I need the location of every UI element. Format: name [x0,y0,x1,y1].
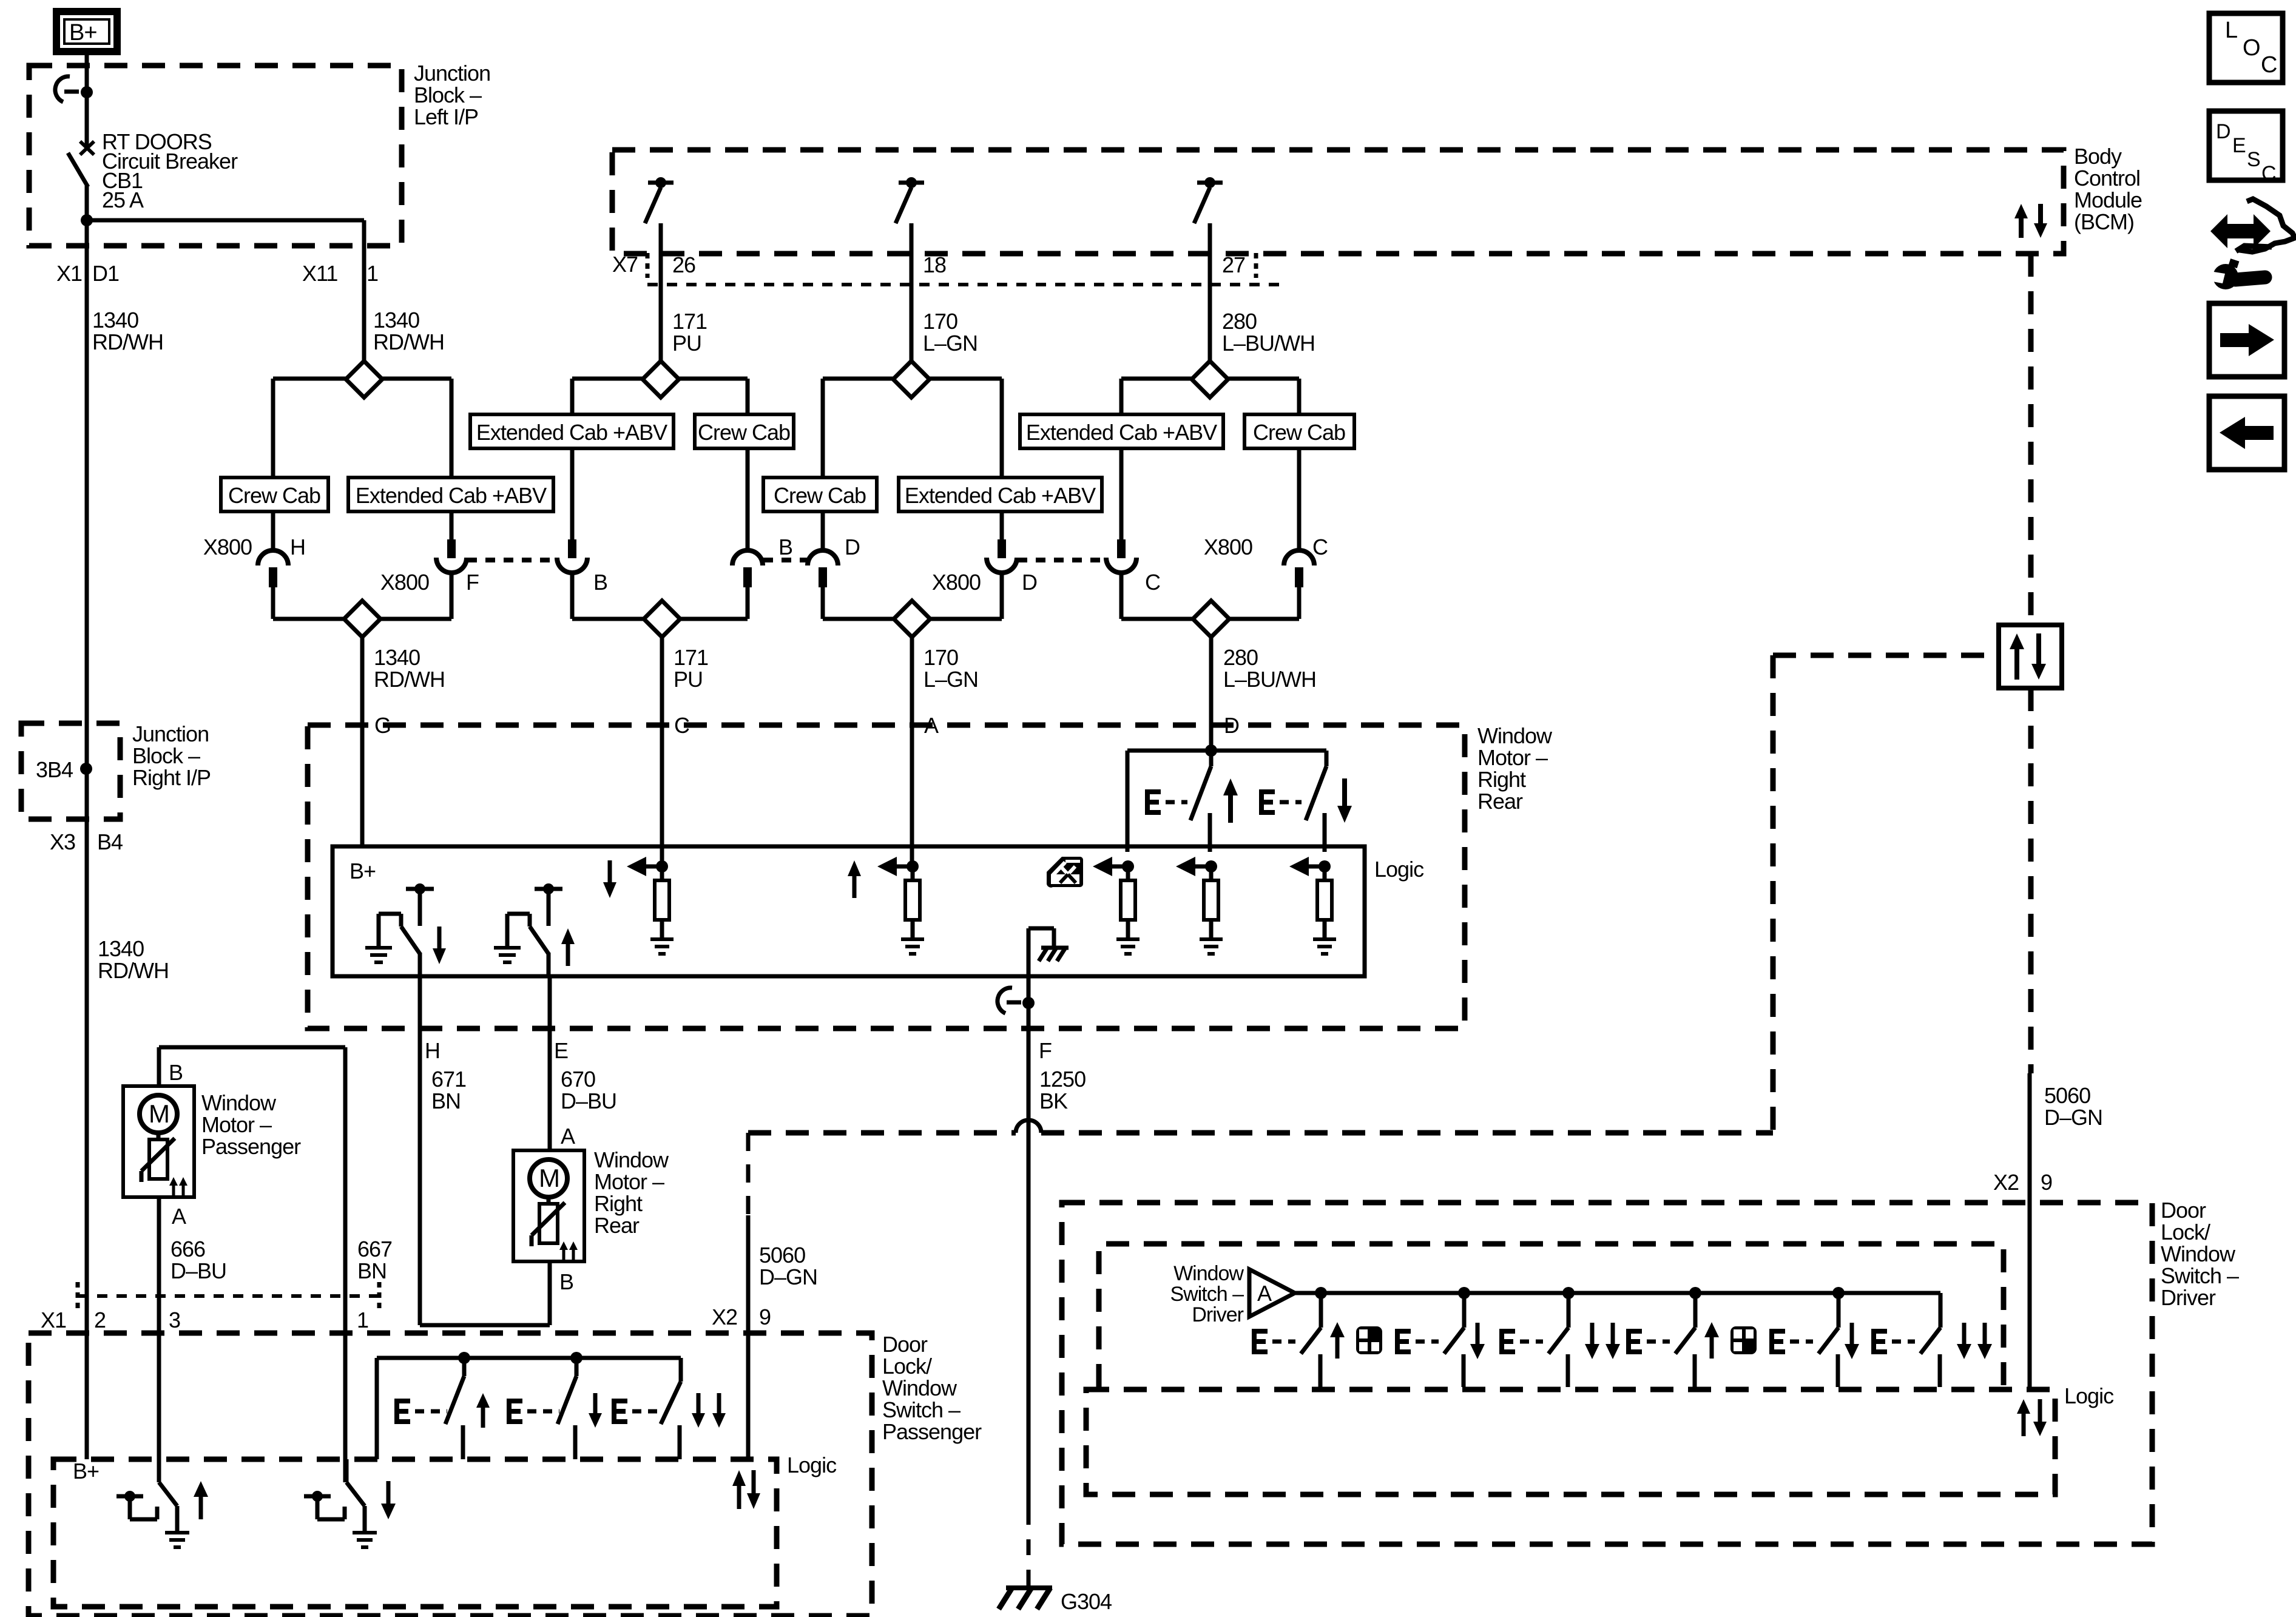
option box Crew Cab branch 3l [763,478,877,511]
right rear up switch [1190,751,1211,852]
icon box DESC [2209,111,2283,185]
svg-text:27: 27 [1222,252,1245,277]
branch 3 l wire connector to bottom [821,584,825,619]
splice S1 clip [55,76,93,102]
branch 2 l leg upper wire [570,379,575,414]
svg-text:C: C [1312,535,1328,559]
svg-text:B4: B4 [97,829,123,854]
connector label C lower [1145,570,1160,595]
svg-text:666: 666 [171,1237,205,1261]
pin 27 label [1222,252,1245,277]
option box Extended Cab +ABV branch 1r [348,478,553,511]
logic internal switch H (down) [365,883,446,976]
wire motor passenger B up [159,1047,345,1296]
svg-text:F: F [466,570,479,595]
branch 1 bottom splice horizontal [273,617,451,621]
svg-text:Left I/P: Left I/P [414,104,478,129]
svg-text:Window: Window [201,1090,277,1115]
svg-text:G304: G304 [1061,1589,1112,1614]
wire label 671 BN [431,1067,466,1113]
wire label 1340 RD/WH left [92,308,163,354]
svg-text:C: C [1145,570,1160,595]
branch 3 r wire box to connector [1000,511,1004,540]
connector X800 link dashes F-B [467,558,556,562]
passenger switch express unit [661,1358,681,1459]
branch 1 r wire connector to bottom [450,573,454,619]
svg-text:Rear: Rear [594,1213,640,1238]
driver inner dashed box [1099,1244,2004,1387]
svg-text:Crew Cab: Crew Cab [228,483,320,508]
wire label 5060 D-GN passenger [759,1243,817,1289]
wire label 170 L-GN upper [923,309,977,356]
connector X7 dotted separator [647,283,1285,286]
wire junction to X11 leg [87,220,364,246]
passenger B+ label [73,1459,99,1484]
svg-text:171: 171 [674,645,708,670]
terminal letter D [1224,713,1239,738]
svg-text:25 A: 25 A [102,187,144,212]
svg-text:Right I/P: Right I/P [132,765,211,790]
svg-text:667: 667 [357,1237,392,1261]
connector X800 half (cup) at 943 [557,539,587,573]
junction block right I/P label [132,721,211,790]
dashed link vertical [1771,655,1776,1133]
splice diamond bottom branch 3 [894,601,930,637]
ground G304 label [1061,1589,1112,1614]
svg-text:X800: X800 [380,570,429,595]
terminal letter H [425,1038,440,1063]
svg-text:9: 9 [759,1305,771,1329]
terminal letter A passenger [172,1204,186,1229]
connector X2 label passenger [712,1305,771,1329]
svg-text:1340: 1340 [92,308,138,333]
driver logic arrows icon [2017,1399,2047,1436]
option box Extended Cab +ABV branch 3r [899,478,1102,511]
passenger B+ dashed box [53,1459,777,1607]
driver logic label [2064,1383,2114,1408]
svg-text:Lock/: Lock/ [882,1354,932,1379]
wire label 280 L-BU/WH upper [1222,309,1315,356]
E label up switch [1145,789,1187,815]
E label down switch [1259,789,1302,815]
circuit breaker CB1 contact X [80,141,94,155]
svg-text:3: 3 [169,1308,180,1332]
svg-text:Crew Cab: Crew Cab [698,420,790,445]
connector label X800 D [932,570,1037,595]
svg-text:Block –: Block – [414,83,482,107]
svg-text:Driver: Driver [1192,1303,1243,1326]
svg-text:1340: 1340 [374,645,420,670]
wire 5060 D-GN passenger [746,1215,751,1461]
svg-text:B: B [778,535,792,559]
connector X800 half (cup) at 744 [436,539,467,573]
svg-text:X800: X800 [203,535,252,559]
svg-text:1250: 1250 [1039,1067,1086,1092]
window switch driver label [1170,1262,1244,1326]
logic resistor group wire A [877,857,924,954]
branch 1 l leg upper wire [271,379,275,478]
svg-text:Driver: Driver [2161,1285,2216,1310]
svg-text:E: E [2232,134,2246,157]
up arrow right rear [1223,778,1238,823]
wire B+ to splice [85,52,89,92]
svg-text:Passenger: Passenger [882,1419,982,1444]
wire 280 lower [1209,636,1214,751]
wire label 1250 BK [1039,1067,1086,1113]
right rear bus left drop [1126,751,1130,852]
connector X800 half (dome) at 2141 [1284,550,1314,587]
connector X800 link dashes D-C [1018,558,1106,562]
pin 18 label [923,252,946,277]
splice diamond top branch 4 [1192,361,1228,397]
down arrow passenger [589,1393,602,1428]
svg-text:RD/WH: RD/WH [92,329,163,354]
passenger logic label [787,1453,837,1477]
option box Crew Cab branch 4r [1244,414,1354,448]
icon adjust hand wrench [2209,199,2295,289]
svg-text:A: A [561,1124,575,1149]
svg-text:PU: PU [672,331,701,356]
svg-text:Motor –: Motor – [201,1112,272,1137]
svg-text:D–GN: D–GN [759,1264,817,1289]
splice clip on wire F [998,988,1035,1013]
svg-text:L–BU/WH: L–BU/WH [1223,667,1316,692]
driver switch unit at 2585 (dd) [1499,1293,1620,1387]
svg-text:RD/WH: RD/WH [373,329,444,354]
pin 2 label [94,1308,106,1332]
svg-text:Junction: Junction [132,721,209,746]
branch 4 r wire connector to bottom [1297,584,1302,619]
wire X11 to splice diamond [362,246,366,362]
svg-text:H: H [290,535,305,559]
terminal letter C [674,713,689,738]
svg-text:BN: BN [357,1258,387,1283]
branch 2 bottom splice horizontal [572,617,748,621]
wire label 1340 RD/WH rail [98,936,169,983]
connector label B upper [778,535,792,559]
svg-text:D–GN: D–GN [2044,1105,2102,1130]
svg-text:Door: Door [2161,1198,2206,1223]
option box Extended Cab +ABV branch 4l [1020,414,1223,448]
logic internal switch E (up) [494,883,575,976]
connector X1 ticks [78,1282,379,1309]
svg-text:170: 170 [923,309,957,334]
wire label 666 D-BU [171,1237,226,1283]
logic resistor group wire x1859 [1093,857,1140,954]
E label passenger express [612,1399,663,1424]
svg-text:Logic: Logic [1374,857,1424,882]
branch 2 r wire box to connector [746,448,750,552]
svg-text:B: B [169,1060,183,1085]
window switch driver triangle [1249,1269,1295,1317]
splice diamond top branch 3 [893,361,930,397]
branch 4 l wire box to connector [1119,448,1124,540]
svg-text:Lock/: Lock/ [2161,1220,2210,1244]
BCM window up-down arrows icon [2014,204,2047,238]
branch 2 l wire box to connector [570,448,575,540]
icon box arrow right [2209,303,2284,377]
connector X1 label [41,1308,66,1332]
svg-text:M: M [539,1164,559,1192]
door lock window switch passenger outer dashed box [29,1333,872,1616]
svg-text:Junction: Junction [414,61,490,86]
svg-text:Extended Cab +ABV: Extended Cab +ABV [356,483,547,508]
BCM dashed drop lower [2028,688,2034,1073]
svg-text:B: B [593,570,607,595]
door lock window switch passenger label [882,1332,982,1444]
branch 3 r leg upper wire [1000,379,1004,478]
svg-text:Window: Window [1173,1262,1244,1285]
passenger switch bus [377,1352,681,1459]
connector X7 ticks [647,253,1256,278]
svg-text:Right: Right [594,1191,643,1216]
logic box B+ label [349,859,376,883]
svg-text:RD/WH: RD/WH [374,667,445,692]
dashed link to arrows box [1773,653,1999,658]
ground G304 symbol [999,1588,1052,1609]
driver switch unit at 3198 (dd) [1871,1293,1992,1387]
door lock window switch driver label [2161,1198,2239,1310]
svg-text:L: L [2225,18,2237,43]
window motor passenger box [123,1086,194,1197]
svg-text:X7: X7 [612,252,638,277]
svg-text:Control: Control [2074,166,2140,191]
node 3B4 [36,757,92,782]
branch 4 top splice horizontal [1121,377,1299,381]
svg-text:PU: PU [674,667,703,692]
svg-text:D: D [2216,120,2230,143]
driver switch bus [1295,1287,1940,1299]
connector X800 half (cup) at 1848 [1106,539,1136,573]
branch 4 l wire connector to bottom [1119,573,1124,619]
wire 171 lower [660,636,664,866]
terminal letter G [374,713,391,738]
logic internal ground F [1028,928,1069,976]
svg-text:D–BU: D–BU [561,1089,616,1113]
svg-text:280: 280 [1223,645,1258,670]
pin label X11 1 [302,261,378,286]
logic resistor group wire x2183 [1289,857,1336,954]
wire label 171 PU lower [674,645,708,692]
pin label X1 D1 [56,261,119,286]
svg-text:X1: X1 [41,1308,66,1332]
branch 1 l wire connector to bottom [271,584,275,619]
svg-text:D1: D1 [92,261,119,286]
wire 171 PU upper [659,254,663,362]
svg-text:C: C [2261,162,2276,185]
icon box arrow left [2209,396,2284,470]
svg-text:Crew Cab: Crew Cab [1253,420,1345,445]
wire F upper [1027,976,1031,1509]
window arrows box [1999,625,2062,688]
dashed link down to 5060 [746,1133,751,1215]
BCM dashed drop upper [2028,254,2034,625]
connector X800 link dashes B-D [763,558,807,562]
junction block - left I/P dashed box [29,66,402,246]
wire label 170 L&#8211;GN lower [923,645,978,692]
svg-text:B+: B+ [73,1459,99,1484]
junction block right I/P dashed box [21,723,120,819]
svg-text:X2: X2 [1993,1170,2019,1195]
connector label D upper [845,535,860,559]
svg-text:Window: Window [594,1147,669,1172]
window motor right rear label [594,1147,669,1238]
wire 667 BN [343,1296,348,1482]
branch 1 r leg upper wire [450,379,454,478]
branch 4 l leg upper wire [1119,379,1124,414]
passenger switch up unit [445,1358,464,1459]
pin 3 label [169,1308,180,1332]
terminal letter B passenger [169,1060,183,1085]
wire splice to breaker [85,92,89,146]
wire breaker down [85,185,89,246]
wire 170 lower [910,636,914,866]
connector X800 half (dome) at 1356 [808,550,838,587]
svg-text:671: 671 [431,1067,466,1092]
passenger logic arrows icon [732,1470,760,1509]
svg-text:1: 1 [366,261,378,286]
svg-text:Block –: Block – [132,743,200,768]
logic down arrow near C [603,860,616,898]
terminal letter B right rear [559,1269,573,1294]
connector X1 dotted separator [78,1294,388,1298]
connector label X800 F [380,570,479,595]
branch 2 l wire connector to bottom [570,573,575,619]
pin 1 label [357,1308,368,1332]
svg-text:B+: B+ [349,859,376,883]
svg-text:D: D [845,535,860,559]
svg-text:Extended Cab +ABV: Extended Cab +ABV [1026,420,1217,445]
svg-text:Passenger: Passenger [201,1134,301,1159]
wire E from logic [548,976,552,1150]
terminal letter A [924,713,939,738]
svg-text:BN: BN [431,1089,461,1113]
svg-text:E: E [554,1038,568,1063]
svg-text:Switch –: Switch – [2161,1263,2239,1288]
svg-text:S: S [2247,148,2260,171]
wire label 5060 D-GN driver [2044,1083,2102,1130]
driver switch unit at 2794 (up) [1626,1293,1757,1387]
svg-text:X2: X2 [712,1305,737,1329]
svg-text:Extended Cab +ABV: Extended Cab +ABV [476,420,667,445]
wire 170 L-GN upper [910,254,914,362]
svg-text:171: 171 [672,309,707,334]
svg-text:5060: 5060 [2044,1083,2090,1108]
svg-text:Right: Right [1477,767,1526,792]
svg-text:18: 18 [923,252,946,277]
svg-text:Module: Module [2074,187,2142,212]
svg-text:Crew Cab: Crew Cab [774,483,866,508]
wire 280 L-BU/WH upper [1208,254,1212,362]
branch 1 l wire box to connector [271,511,275,552]
icon box LOC [2209,13,2283,83]
terminal letter A right rear [561,1124,575,1149]
svg-text:C: C [2261,52,2277,78]
driver logic dashed box [1086,1389,2055,1494]
svg-text:X1: X1 [56,261,82,286]
svg-text:Body: Body [2074,144,2122,169]
passenger B+ switch down [304,1459,396,1547]
svg-text:Switch –: Switch – [1170,1283,1244,1306]
connector X7 label [612,252,638,277]
svg-text:1340: 1340 [373,308,419,333]
wire label 670 D-BU [561,1067,616,1113]
double down arrows passenger [692,1393,726,1428]
svg-text:RD/WH: RD/WH [98,958,169,983]
circuit breaker CB1 label [102,129,238,212]
option box Crew Cab branch 1l [221,478,328,511]
svg-text:Motor –: Motor – [594,1169,664,1194]
connector X2 label driver [1993,1170,2052,1195]
window motor right rear box [513,1150,584,1261]
option box Extended Cab +ABV branch 2l [470,414,674,448]
svg-text:B: B [559,1269,573,1294]
window motor passenger label [201,1090,301,1159]
branch 4 bottom splice horizontal [1121,617,1299,621]
wire label 667 BN [357,1237,392,1283]
splice diamond bottom branch 1 [344,601,380,637]
logic window-down icon [1047,857,1083,888]
branch 3 l wire box to connector [821,511,825,552]
option box Crew Cab branch 2r [695,414,794,448]
svg-text:O: O [2243,35,2260,61]
up arrow passenger [476,1393,490,1428]
svg-text:280: 280 [1222,309,1257,334]
window motor right rear outer label [1477,723,1553,814]
wire 1340 lower [360,636,365,846]
svg-text:X800: X800 [932,570,981,595]
dashed link horizontal with hop [748,1120,1773,1133]
svg-text:1: 1 [357,1308,368,1332]
terminal letter F [1039,1038,1052,1063]
svg-text:Window: Window [2161,1241,2236,1266]
branch 1 r wire box to connector [450,511,454,540]
logic up arrow near A [848,860,861,898]
svg-text:Logic: Logic [787,1453,837,1477]
svg-text:F: F [1039,1038,1052,1063]
branch 2 r wire connector to bottom [746,584,750,619]
svg-text:Extended Cab +ABV: Extended Cab +ABV [905,483,1096,508]
svg-text:Rear: Rear [1477,789,1523,814]
passenger B+ switch up [116,1459,208,1547]
connector X800 half (dome) at 450 [258,550,288,587]
BCM internal switch pin 18 [896,177,924,254]
svg-text:D: D [1022,570,1037,595]
circuit breaker CB1 blade [68,153,88,187]
passenger switch down unit [558,1358,576,1459]
svg-text:Window: Window [1477,723,1553,748]
wire H from logic [420,976,550,1325]
down arrow right rear [1337,778,1352,823]
door lock window switch driver outer dashed box [1062,1203,2152,1544]
splice diamond bottom branch 2 [644,601,680,637]
svg-text:M: M [149,1099,169,1128]
connector X800 half (dome) at 1232 [732,550,763,587]
pin 26 label [672,252,695,277]
svg-text:X3: X3 [50,829,75,854]
splice diamond bottom branch 4 [1193,601,1229,637]
svg-text:D–BU: D–BU [171,1258,226,1283]
svg-text:L–GN: L–GN [923,667,978,692]
wire 666 D-BU [157,1197,161,1482]
svg-text:H: H [425,1038,440,1063]
BCM label [2074,144,2142,234]
right rear motor switch bus [1127,744,1326,757]
branch 4 r wire box to connector [1297,448,1302,552]
svg-text:1340: 1340 [98,936,144,961]
E label passenger down [507,1399,559,1424]
svg-text:2: 2 [94,1308,106,1332]
